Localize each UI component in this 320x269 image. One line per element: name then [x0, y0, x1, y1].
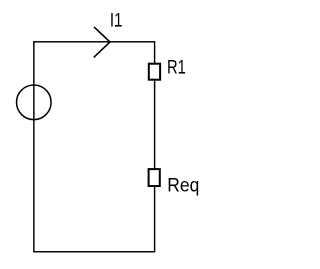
- svg-text:I1: I1: [110, 10, 123, 32]
- svg-text:R1: R1: [167, 57, 186, 79]
- svg-text:Req: Req: [167, 174, 199, 196]
